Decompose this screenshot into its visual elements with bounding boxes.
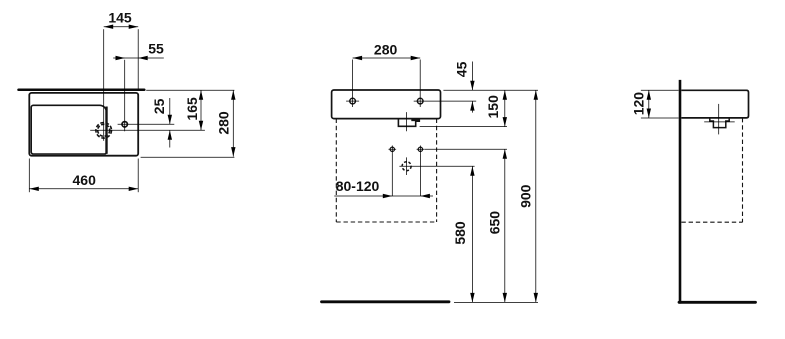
dimension 55 line (113, 57, 164, 59)
tap left extension to 280 dim (352, 60, 354, 108)
bottom extension line to 280 (141, 156, 235, 158)
waste pipe crosshair vertical (406, 157, 408, 175)
dimension 900 arrow down (534, 293, 538, 303)
dimension 280 arrow down (231, 147, 235, 157)
dimension 460 line (29, 188, 138, 190)
dimension 120 arrow up (647, 90, 651, 100)
dimension 650 arrow up (503, 149, 507, 159)
waste pipe crosshair horizontal / extension to 580 dim (399, 165, 474, 167)
bowl right wall (thick edge) (105, 107, 107, 154)
dimension 25 line lower (169, 130, 171, 147)
back wall edge (thick) (19, 88, 145, 91)
concealed installation zone dashed left (335, 119, 337, 222)
right edge extension line (top) (137, 29, 139, 88)
drain centerline vertical / extension to 145 dim (103, 29, 105, 141)
drain cup crosshair horizontal (704, 121, 735, 123)
dimension 45 line lower (471, 101, 473, 113)
dimension 55 arrow (points left at right edge) (138, 56, 148, 60)
tap hole right (front) (417, 98, 423, 104)
tap hole right crosshair / extension to 45 dim (414, 100, 477, 102)
drain fitting box (398, 119, 419, 127)
fixing hole right extension down (419, 153, 421, 196)
waste pipe circle (dashed) (402, 162, 411, 171)
drain box bottom extension right (420, 126, 507, 128)
dimension 900 arrow up (534, 90, 538, 100)
dashed zone right edge (side) (742, 118, 744, 222)
dimension 900 line (535, 90, 537, 302)
fixing hole right cross (417, 146, 425, 154)
floor extension line (454, 301, 538, 303)
dimension 145 line (104, 26, 139, 28)
svg-text:145: 145 (108, 10, 132, 26)
dimension 150 line (504, 90, 506, 126)
dimension 650 line (504, 149, 506, 302)
drain cup (side) (710, 118, 729, 128)
fixing hole left (390, 147, 394, 151)
dimension 280 arrow up (231, 90, 235, 100)
dimension 150 arrow down (503, 117, 507, 127)
dimension 280 line (left view) (232, 90, 234, 156)
dimension 165 arrow up (199, 90, 203, 100)
svg-text:650: 650 (487, 211, 503, 235)
tap right extension to 280 dim (419, 60, 421, 108)
svg-text:45: 45 (453, 61, 469, 77)
svg-text:80-120: 80-120 (336, 178, 380, 194)
drain fitting step (thick mark) (411, 119, 419, 121)
dimension 150 arrow up (503, 90, 507, 100)
drain hole (dashed circle inner) (98, 124, 110, 136)
svg-text:580: 580 (452, 221, 468, 245)
dimension 45 arrow down (470, 81, 474, 91)
dimension 460 arrow left (29, 187, 39, 191)
svg-text:165: 165 (184, 97, 200, 121)
460 extension line left (28, 159, 30, 193)
dimension 580 line (471, 166, 473, 302)
fixing hole left extension down (391, 153, 393, 196)
120 extension line bottom (641, 117, 679, 119)
fixing hole extension right to 650 dim (424, 148, 507, 150)
dashed zone bottom (side) (681, 221, 742, 223)
dimension 145 arrow left (104, 25, 114, 29)
dimension 45 arrow up (470, 101, 474, 111)
dimension 280 front arrow right (411, 56, 421, 60)
svg-text:280: 280 (374, 41, 398, 57)
svg-text:25: 25 (151, 98, 167, 114)
dimension 80-120 line (334, 195, 433, 197)
svg-text:900: 900 (517, 184, 533, 208)
bowl inner outline (31, 105, 106, 154)
fixing hole left cross (389, 146, 397, 154)
dimension 165 arrow down (199, 121, 203, 131)
dimension 580 arrow up (470, 166, 474, 176)
tap hole centerline vertical / extension to 55 dim (124, 60, 126, 132)
dimension 80-120 arrow left-pointing (420, 194, 430, 198)
basin front outline (332, 90, 441, 119)
basin top extension right (443, 89, 538, 91)
tap hole left crosshair (346, 100, 359, 102)
dimension 120 line (648, 90, 650, 118)
dimension 145 arrow right (129, 25, 139, 29)
concealed installation zone dashed right (436, 119, 438, 222)
fixing hole right (418, 147, 422, 151)
dimension 25 arrow up (168, 130, 172, 140)
floor line (side view) (679, 301, 756, 304)
svg-text:55: 55 (148, 41, 164, 57)
dimension 55 arrow (points right at tap centerline) (116, 56, 126, 60)
basin outer rim (top view) (29, 93, 138, 156)
dimension 165 line (200, 90, 202, 130)
drain cup crosshair vertical (718, 104, 720, 134)
svg-text:150: 150 (485, 95, 501, 119)
dimension 280 front arrow left (353, 56, 363, 60)
drain fitting centerline (406, 112, 408, 131)
dimension 120 arrow down (647, 109, 651, 119)
dimension 650 arrow down (503, 293, 507, 303)
dimension 45 line upper (471, 62, 473, 91)
drain hole (dashed circle outer) (96, 123, 112, 139)
dimension 25 line upper (169, 98, 171, 124)
dimension 280 line (front) (353, 57, 421, 59)
tap hole centerline horizontal / extension to 25 dim (118, 123, 175, 125)
top extension line to 165/280 (146, 89, 234, 91)
tap hole left (front) (350, 98, 356, 104)
svg-text:280: 280 (215, 111, 231, 135)
tap hole (top view) (122, 122, 127, 127)
floor line (front view) (322, 300, 450, 303)
concealed installation zone dashed bottom (336, 221, 436, 223)
dimension 580 arrow down (470, 293, 474, 303)
460 extension line right (137, 159, 139, 193)
dimension 460 arrow right (129, 187, 139, 191)
drain centerline horizontal (90, 129, 205, 131)
wall line (thick vertical) (679, 80, 682, 304)
svg-text:460: 460 (73, 172, 97, 188)
dimension 80-120 arrow right-pointing (383, 194, 393, 198)
dimension 25 arrow down (168, 115, 172, 125)
basin side profile (681, 90, 748, 118)
svg-text:120: 120 (631, 92, 647, 116)
120 extension line top (641, 89, 679, 91)
